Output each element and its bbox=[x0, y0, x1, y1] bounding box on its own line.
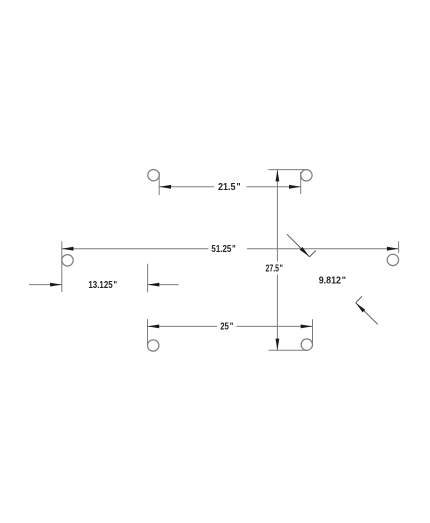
svg-text:25 ": 25 " bbox=[220, 322, 233, 333]
text gap 25 bbox=[217, 321, 237, 332]
hole circle mid-left bbox=[62, 255, 73, 266]
arrowhead 25 right bbox=[301, 325, 313, 329]
extension line right tangent of bottom-right hole bbox=[312, 319, 314, 344]
leader line lower 9.812 bbox=[356, 303, 378, 325]
arrowhead leader upper (points down-right) bbox=[300, 247, 310, 257]
text gap 51.25 bbox=[209, 243, 248, 254]
arrowhead leader lower (points up-left) bbox=[356, 303, 366, 313]
leader line upper 9.812 bbox=[287, 234, 309, 256]
extension line 13.125 right bbox=[147, 264, 149, 293]
arrowhead 27.5 top bbox=[276, 170, 280, 182]
dimension tail 13.125 left bbox=[29, 284, 62, 286]
extension line top tangent of top-right hole bbox=[268, 169, 306, 171]
dimension line 27.5 vertical bbox=[276, 170, 278, 351]
extension line left tangent of bottom-left hole bbox=[147, 319, 149, 345]
arrowhead 25 left bbox=[148, 325, 160, 329]
arrowhead 21.5 left bbox=[159, 185, 171, 189]
extension line right tangent of far-right hole bbox=[398, 241, 400, 253]
hole circle top-left bbox=[148, 170, 159, 181]
arrowhead 13.125 right (points left) bbox=[148, 283, 160, 287]
arrowhead 51.25 right bbox=[387, 247, 399, 251]
hole circle top-right bbox=[301, 170, 312, 181]
dimension line 25 bbox=[148, 325, 313, 327]
svg-text:27.5 ": 27.5 " bbox=[266, 263, 284, 274]
svg-text:21.5 ": 21.5 " bbox=[218, 182, 241, 193]
edge tick at upper leader tip bbox=[309, 251, 316, 258]
svg-text:13.125 ": 13.125 " bbox=[88, 280, 117, 291]
edge tick at lower leader tip bbox=[356, 296, 362, 303]
hole circle bottom-right bbox=[301, 339, 312, 350]
extension line left tangent of top-right hole bbox=[300, 172, 302, 194]
hole circle far-right bbox=[387, 254, 398, 265]
extension line left tangent of mid-left hole bbox=[61, 241, 63, 292]
hole circle bottom-left bbox=[148, 340, 159, 351]
extension line right tangent of top-left hole bbox=[158, 172, 160, 195]
text gap 21.5 bbox=[214, 181, 247, 192]
dimension line 51.25 bbox=[62, 248, 399, 250]
text gap 27.5 bbox=[264, 262, 285, 275]
arrowhead 51.25 left bbox=[62, 247, 74, 251]
arrowhead 13.125 left (points right) bbox=[50, 283, 62, 287]
svg-text:9.812 ": 9.812 " bbox=[319, 275, 347, 286]
arrowhead 27.5 bottom bbox=[276, 339, 280, 351]
extension line bottom tangent of bottom-right hole bbox=[269, 349, 307, 351]
dimension tail 13.125 right bbox=[148, 284, 179, 286]
arrowhead 21.5 right bbox=[289, 185, 301, 189]
svg-text:51.25 ": 51.25 " bbox=[211, 244, 236, 255]
dimension line 21.5 bbox=[159, 186, 300, 188]
